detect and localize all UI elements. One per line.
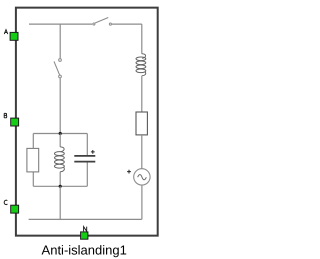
switch S2 blade — [54, 61, 60, 75]
AC source polarity plus — [127, 170, 131, 174]
resistor R1 leads — [32, 134, 34, 187]
AC source sine — [138, 175, 147, 180]
wire top bus — [29, 23, 92, 25]
inductor L1 leads — [59, 134, 61, 187]
capacitor C1 plates — [74, 155, 95, 157]
wire right branch bottom — [141, 185, 143, 219]
wire top bus right segment — [112, 23, 142, 25]
wire middle drop lower — [59, 78, 61, 133]
wire middle drop — [59, 24, 61, 58]
port B — [4, 113, 18, 126]
wire right branch — [141, 135, 143, 169]
subsystem frame — [16, 8, 158, 236]
resistor R2 — [136, 112, 147, 135]
capacitor C1 leads — [86, 134, 88, 187]
AC source V1 — [134, 169, 150, 185]
wire right branch — [141, 76, 143, 112]
port A — [4, 30, 18, 41]
switch S2 bottom contact — [59, 75, 62, 78]
wire RLC top bus — [33, 133, 87, 135]
wire RLC to ground bus — [59, 186, 61, 219]
svg-text:Anti-islanding1: Anti-islanding1 — [42, 242, 127, 257]
wire right branch top — [141, 24, 143, 54]
capacitor C1 polarity plus — [91, 150, 95, 154]
wire bottom bus — [29, 218, 142, 220]
port N — [81, 227, 88, 240]
inductor L1 — [55, 147, 65, 172]
breaker switch S1 blade — [95, 18, 108, 24]
port C — [4, 200, 18, 213]
breaker switch S1 left contact — [93, 23, 95, 25]
junction top — [59, 132, 62, 135]
breaker switch S1 right contact — [109, 23, 111, 25]
resistor R1 — [27, 148, 39, 172]
switch S2 top contact — [59, 59, 62, 62]
wire RLC bottom bus — [33, 185, 87, 187]
inductor L2 — [136, 54, 146, 76]
junction bottom — [59, 185, 62, 188]
